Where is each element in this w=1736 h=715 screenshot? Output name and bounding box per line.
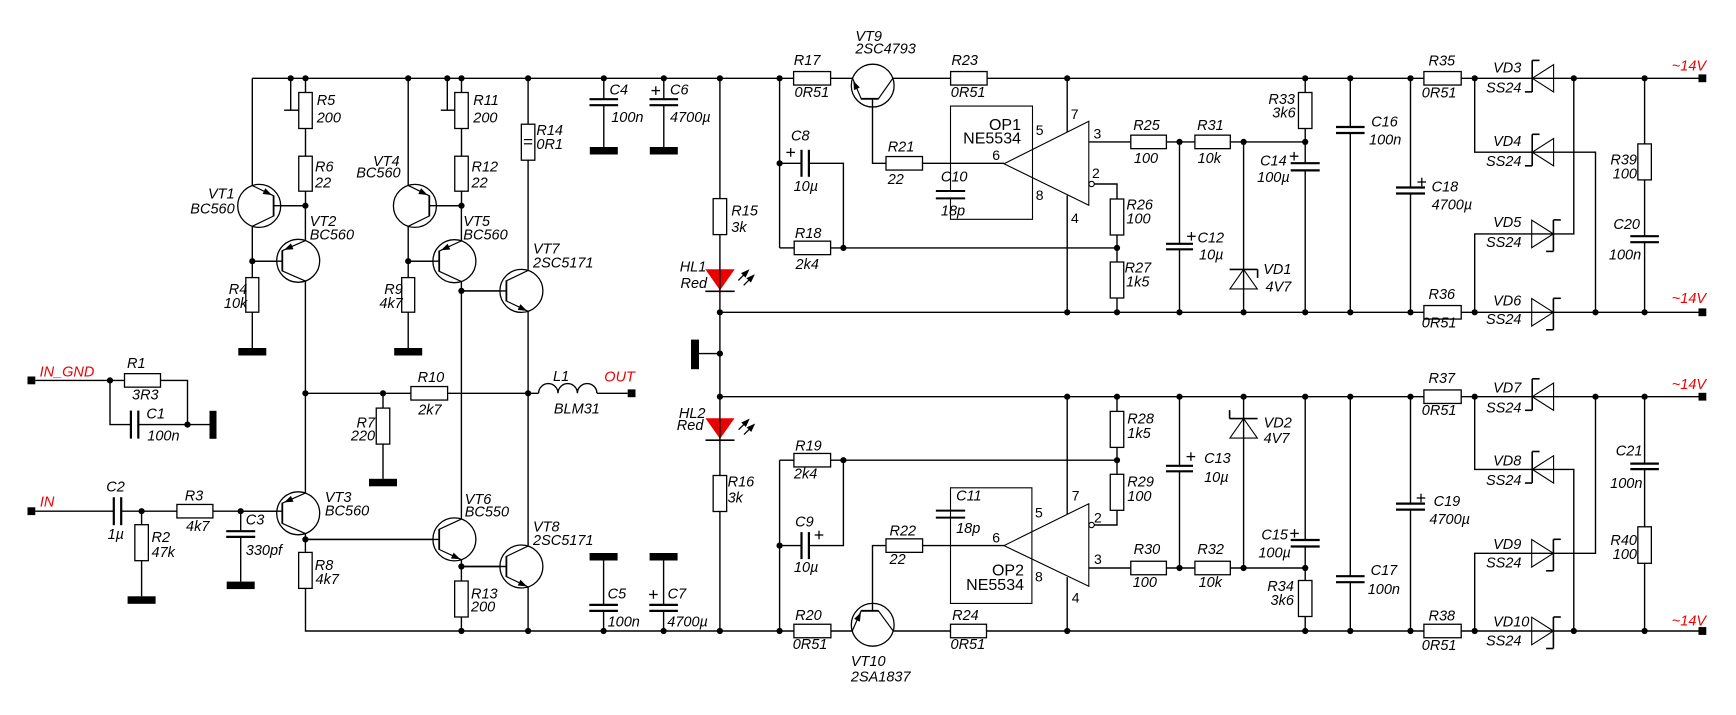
capacitor C4 xyxy=(590,83,644,127)
junction bottom rail x528 xyxy=(525,628,531,634)
svg-text:4700µ: 4700µ xyxy=(667,615,708,631)
junction top rail x780 xyxy=(777,75,783,81)
svg-text:100n: 100n xyxy=(1369,132,1401,148)
wire VT8 collector xyxy=(527,393,529,546)
capacitor C21 xyxy=(1610,444,1659,492)
wire VT6 base link xyxy=(306,538,440,540)
signal ground bar xyxy=(691,340,699,370)
junction node C9 left xyxy=(777,543,783,549)
svg-text:200: 200 xyxy=(472,111,497,127)
svg-text:6: 6 xyxy=(992,147,1000,163)
wire VT8 emitter to bottom rail xyxy=(527,587,529,631)
svg-text:10µ: 10µ xyxy=(1199,248,1223,264)
wire IN lead xyxy=(35,510,114,512)
wire C1 row xyxy=(110,380,188,424)
svg-text:R2: R2 xyxy=(152,530,171,546)
svg-text:R25: R25 xyxy=(1133,118,1161,134)
svg-text:BC560: BC560 xyxy=(190,202,234,218)
wire VD5 branch xyxy=(1475,78,1574,312)
resistor R7 xyxy=(350,408,390,444)
capacitor C12 xyxy=(1166,231,1224,264)
svg-text:R6: R6 xyxy=(315,159,334,175)
junction ch2 rail x1596 xyxy=(1592,394,1598,400)
junction node R1-C1 left xyxy=(107,377,113,383)
inductor L1 xyxy=(539,369,600,417)
resistor R5 xyxy=(299,93,341,129)
svg-text:8: 8 xyxy=(1036,187,1044,203)
svg-text:R19: R19 xyxy=(795,439,822,455)
svg-text:1k5: 1k5 xyxy=(1127,426,1151,442)
svg-text:SS24: SS24 xyxy=(1486,154,1521,170)
junction node VT3-VT6 base xyxy=(302,536,308,542)
svg-text:BC560: BC560 xyxy=(463,228,507,244)
capacitor C8 xyxy=(786,129,818,195)
svg-text:R16: R16 xyxy=(728,474,756,490)
svg-text:100: 100 xyxy=(1127,489,1151,505)
resistor R19 xyxy=(793,439,831,483)
transistor VT3 xyxy=(241,490,370,535)
svg-text:18p: 18p xyxy=(956,521,980,537)
resistor R2 xyxy=(135,525,176,562)
svg-text:NE5534: NE5534 xyxy=(966,577,1024,594)
resistor R9 xyxy=(379,278,414,313)
junction ch2 rail x1244 xyxy=(1241,394,1247,400)
wire C7 column xyxy=(663,561,665,632)
svg-text:R36: R36 xyxy=(1429,287,1457,303)
svg-text:~14V: ~14V xyxy=(1672,614,1708,630)
svg-text:R17: R17 xyxy=(794,53,822,69)
svg-text:SS24: SS24 xyxy=(1486,473,1521,489)
svg-text:C9: C9 xyxy=(795,514,814,530)
junction mid rail x1645 xyxy=(1642,309,1648,315)
transistor VT8 xyxy=(461,519,593,588)
svg-text:C11: C11 xyxy=(956,488,982,504)
junction node R19-C9 xyxy=(840,457,846,463)
junction node VT7-VT8 on OUT rail xyxy=(525,390,531,396)
wire mid rail channel-1 return xyxy=(720,311,1699,313)
junction top rail x720 xyxy=(717,75,723,81)
diode VD7 xyxy=(1486,379,1554,417)
svg-text:2k4: 2k4 xyxy=(795,257,819,273)
resistor R6 xyxy=(299,156,335,191)
resistor R34 xyxy=(1267,579,1312,616)
svg-text:R35: R35 xyxy=(1429,53,1457,69)
svg-text:10k: 10k xyxy=(1198,151,1222,167)
junction node VT6-VT8 base xyxy=(458,563,464,569)
OP2 pin labels xyxy=(992,487,1102,605)
svg-text:10µ: 10µ xyxy=(794,179,818,195)
junction ch2 rail x1410 xyxy=(1407,394,1413,400)
wire VT9 base lead xyxy=(873,107,887,163)
svg-text:C16: C16 xyxy=(1371,115,1399,131)
wire R34 column xyxy=(1304,568,1306,631)
wire OP1 pin7 xyxy=(1066,78,1068,132)
wire OP2 pin2 xyxy=(1094,510,1117,525)
junction ch2 rail x1117 xyxy=(1114,394,1120,400)
svg-text:0R51: 0R51 xyxy=(1422,86,1457,102)
junction node VT2 base xyxy=(249,258,255,264)
resistor R29 xyxy=(1110,474,1154,510)
resistor R26 xyxy=(1110,198,1154,235)
svg-text:100n: 100n xyxy=(1609,248,1641,264)
resistor R39 xyxy=(1610,144,1651,183)
wire C8 to R18 xyxy=(809,163,844,248)
svg-text:R31: R31 xyxy=(1197,118,1224,134)
wire bottom rail xyxy=(306,588,1699,631)
svg-text:3k: 3k xyxy=(728,491,744,507)
diode VD3 xyxy=(1486,60,1554,96)
junction mid rail x1410 xyxy=(1407,309,1413,315)
diode VD6 xyxy=(1486,294,1561,330)
junction node R12-VT4 base xyxy=(458,203,464,209)
junction mid rail x1117 xyxy=(1114,309,1120,315)
svg-text:4: 4 xyxy=(1072,590,1080,606)
wire VT2 collector xyxy=(304,206,306,241)
resistor R36 xyxy=(1422,287,1461,332)
svg-text:R24: R24 xyxy=(952,608,979,624)
resistor R27 xyxy=(1110,261,1152,298)
svg-text:4k7: 4k7 xyxy=(316,572,340,588)
wire C6 column xyxy=(663,78,665,147)
junction bottom rail x720 xyxy=(717,628,723,634)
zener VD1 xyxy=(1230,262,1293,296)
wire C12 column xyxy=(1179,142,1181,312)
wire VT2 base link xyxy=(252,260,282,262)
resistor R38 xyxy=(1422,608,1461,654)
svg-text:6: 6 xyxy=(992,530,1000,546)
svg-text:C19: C19 xyxy=(1434,494,1461,510)
svg-text:R15: R15 xyxy=(731,204,759,220)
resistor R14 xyxy=(521,123,563,160)
junction node VT5 base xyxy=(405,258,411,264)
resistor R15 xyxy=(713,199,759,236)
junction node C13 bottom xyxy=(1176,565,1182,571)
junction bottom rail x1067 xyxy=(1064,628,1070,634)
svg-text:VD6: VD6 xyxy=(1493,294,1522,310)
svg-text:220: 220 xyxy=(350,429,375,445)
junction top rail x1475 xyxy=(1472,75,1478,81)
capacitor C15 xyxy=(1258,528,1319,562)
wire R15 column xyxy=(719,78,721,269)
svg-text:C20: C20 xyxy=(1613,217,1640,233)
junction bottom rail x461 xyxy=(458,628,464,634)
svg-text:4V7: 4V7 xyxy=(1266,280,1293,296)
wire VT7 base link xyxy=(461,290,506,292)
junction top rail x408 xyxy=(405,75,411,81)
junction top rail x447 xyxy=(444,75,450,81)
svg-text:BC550: BC550 xyxy=(465,504,509,520)
transistor VT4 xyxy=(356,154,461,227)
wire IN_GND lead xyxy=(35,379,124,381)
capacitor C7 xyxy=(649,586,708,630)
op-amp U1 OP1 xyxy=(963,117,1094,205)
svg-text:SS24: SS24 xyxy=(1486,312,1521,328)
wire OP1 pin2 xyxy=(1094,184,1117,199)
OP1 pin labels xyxy=(992,106,1101,226)
resistor R8 xyxy=(299,552,340,588)
svg-text:BC560: BC560 xyxy=(310,228,354,244)
wire OP1 pin4 xyxy=(1066,196,1068,313)
svg-text:100n: 100n xyxy=(147,429,179,445)
svg-text:R23: R23 xyxy=(951,53,978,69)
svg-text:3R3: 3R3 xyxy=(132,388,159,404)
wire R28-R29 link xyxy=(1116,447,1118,474)
svg-text:10k: 10k xyxy=(1199,575,1223,591)
wire VT3 emitter to R8 xyxy=(304,534,306,553)
terminal IN_GND xyxy=(28,365,95,385)
svg-text:4700µ: 4700µ xyxy=(670,110,711,126)
junction ch2 rail x1645 xyxy=(1642,394,1648,400)
junction node R19-R28-R29 xyxy=(1114,457,1120,463)
transistor VT9 xyxy=(851,29,916,107)
wire VT5 emitter to VT6 collector xyxy=(460,281,462,519)
svg-text:SS24: SS24 xyxy=(1486,81,1521,97)
svg-text:VD4: VD4 xyxy=(1493,134,1521,150)
resistor R22 xyxy=(886,524,923,569)
wire R39 column xyxy=(1644,78,1646,312)
junction bottom rail x1305 xyxy=(1302,628,1308,634)
diode VD8 xyxy=(1486,452,1554,490)
junction mid rail x720 xyxy=(717,309,723,315)
junction top rail x1067 xyxy=(1064,75,1070,81)
svg-text:BC560: BC560 xyxy=(325,503,369,519)
svg-text:2: 2 xyxy=(1092,165,1100,181)
svg-text:0R51: 0R51 xyxy=(1422,403,1457,419)
wire C16 column xyxy=(1349,78,1351,312)
junction node R6-VT1 base xyxy=(302,203,308,209)
svg-text:C10: C10 xyxy=(941,170,968,186)
svg-text:100µ: 100µ xyxy=(1258,546,1291,562)
wire VT10 base lead xyxy=(873,546,887,604)
junction node VT5-VT7 base xyxy=(458,288,464,294)
terminal +14V top xyxy=(1672,59,1708,83)
wire C4 column xyxy=(603,78,605,147)
wire C9 left column xyxy=(779,460,781,631)
resistor R23 xyxy=(951,53,988,101)
svg-text:4700µ: 4700µ xyxy=(1432,198,1473,214)
ground above C7 xyxy=(650,553,678,561)
capacitor C13 xyxy=(1166,451,1231,486)
capacitor C17 xyxy=(1336,563,1400,598)
svg-text:22: 22 xyxy=(471,176,488,192)
junction bottom rail x1475 xyxy=(1472,628,1478,634)
wire R27 to mid rail xyxy=(1116,298,1118,312)
svg-text:C13: C13 xyxy=(1204,451,1231,467)
wire VT4 base link xyxy=(429,205,461,207)
svg-text:~14V: ~14V xyxy=(1672,291,1708,307)
capacitor C11 xyxy=(936,488,982,537)
svg-text:7: 7 xyxy=(1072,487,1080,503)
svg-text:C3: C3 xyxy=(246,513,265,529)
svg-text:100µ: 100µ xyxy=(1257,170,1290,186)
svg-text:0R51: 0R51 xyxy=(951,637,986,653)
junction node R18-R26-R27 xyxy=(1114,245,1120,251)
wire C8 left column xyxy=(779,78,781,248)
svg-text:VD8: VD8 xyxy=(1493,453,1521,469)
wire VT4 emitter to R9 xyxy=(407,226,409,277)
wire C3 branch xyxy=(240,511,242,581)
junction top rail x1305 xyxy=(1302,75,1308,81)
junction ch2 rail x1067 xyxy=(1064,394,1070,400)
capacitor C18 xyxy=(1396,178,1472,214)
wire VT1 base link xyxy=(274,205,306,207)
junction bottom rail x1645 xyxy=(1642,628,1648,634)
svg-text:R30: R30 xyxy=(1134,542,1161,558)
wire C18 column xyxy=(1410,78,1412,312)
svg-text:SS24: SS24 xyxy=(1486,400,1521,416)
LED HL2 xyxy=(677,406,755,440)
svg-text:R11: R11 xyxy=(473,93,499,109)
svg-text:VT10: VT10 xyxy=(851,654,886,670)
capacitor C14 xyxy=(1257,152,1320,186)
wire C21-R40 column xyxy=(1644,397,1646,631)
wire C9 row xyxy=(780,545,802,547)
wire R2 branch xyxy=(141,511,143,596)
svg-text:3k: 3k xyxy=(731,220,747,236)
wire C2 to R3 xyxy=(121,510,177,512)
diode VD9 xyxy=(1486,537,1561,571)
wire R33 column xyxy=(1304,78,1306,142)
resistor R30 xyxy=(1131,542,1167,591)
wire HL1 to mid rail xyxy=(719,291,721,312)
ground below R9 xyxy=(394,348,422,356)
svg-text:5: 5 xyxy=(1035,505,1043,521)
svg-text:C2: C2 xyxy=(106,479,125,495)
resistor R40 xyxy=(1610,527,1651,564)
wire R14 column xyxy=(527,78,529,270)
svg-text:4k7: 4k7 xyxy=(379,296,403,312)
junction mid rail x1180 xyxy=(1176,309,1182,315)
terminal OUT xyxy=(604,370,636,397)
terminal -14V bottom xyxy=(1672,614,1708,635)
svg-text:R32: R32 xyxy=(1197,542,1224,558)
wire R11 column xyxy=(461,78,463,205)
svg-text:4700µ: 4700µ xyxy=(1429,512,1470,528)
wire channel-2 supply rail xyxy=(720,396,1699,398)
svg-text:R1: R1 xyxy=(127,356,146,372)
svg-text:C6: C6 xyxy=(670,83,689,99)
junction bottom rail x780 xyxy=(777,628,783,634)
svg-text:2SC5171: 2SC5171 xyxy=(532,255,593,271)
resistor R4 xyxy=(224,278,259,313)
svg-text:100n: 100n xyxy=(611,110,643,126)
svg-text:SS24: SS24 xyxy=(1486,556,1521,572)
svg-text:C17: C17 xyxy=(1371,563,1399,579)
junction node C3 tap xyxy=(238,508,244,514)
svg-text:L1: L1 xyxy=(553,369,569,385)
svg-text:~14V: ~14V xyxy=(1672,59,1708,75)
junction node C8 left xyxy=(777,160,783,166)
capacitor C10 xyxy=(936,170,968,220)
svg-text:8: 8 xyxy=(1035,568,1043,584)
svg-text:10µ: 10µ xyxy=(794,560,818,576)
transistor VT1 xyxy=(190,184,305,227)
svg-text:100: 100 xyxy=(1613,547,1637,563)
capacitor C1 xyxy=(131,407,180,445)
wire VD1 column xyxy=(1243,142,1245,312)
wire R25-R31 row xyxy=(1166,141,1305,143)
svg-text:1µ: 1µ xyxy=(108,527,124,543)
junction ch2 rail x1475 xyxy=(1472,394,1478,400)
capacitor C3 xyxy=(226,513,284,560)
terminal -14V mid xyxy=(1672,291,1708,316)
LED HL1 xyxy=(680,259,755,292)
svg-text:C7: C7 xyxy=(668,586,687,602)
resistor R12 xyxy=(455,156,498,191)
wire mid ground stub xyxy=(699,353,720,355)
junction mid rail x1596 xyxy=(1592,309,1598,315)
wire C8 row xyxy=(780,162,802,164)
junction node C1-gnd xyxy=(184,422,190,428)
svg-text:VD1: VD1 xyxy=(1263,262,1291,278)
terminal IN xyxy=(28,495,55,516)
wire R3 to VT3 base xyxy=(213,510,284,512)
junction mid rail x1244 xyxy=(1241,309,1247,315)
resistor R18 xyxy=(794,226,830,273)
junction node VD1 top xyxy=(1241,139,1247,145)
wire R26-R27 link xyxy=(1116,235,1118,262)
junction bottom rail x1410 xyxy=(1407,628,1413,634)
wire VT5 base link xyxy=(408,260,439,262)
svg-text:100: 100 xyxy=(1613,166,1637,182)
wire VD2 column xyxy=(1243,397,1245,568)
svg-text:100: 100 xyxy=(1126,212,1150,228)
wire OP2 pin3 out xyxy=(1089,567,1131,569)
svg-text:R22: R22 xyxy=(890,524,917,540)
wire VT3 collector xyxy=(304,393,306,493)
svg-text:VD7: VD7 xyxy=(1493,381,1522,397)
svg-text:C21: C21 xyxy=(1616,444,1643,460)
wire R9 to ground xyxy=(407,312,409,348)
svg-text:VD5: VD5 xyxy=(1493,215,1522,231)
svg-text:100: 100 xyxy=(1134,151,1158,167)
resistor R10 xyxy=(411,370,448,419)
junction ch2 rail x1180 xyxy=(1176,394,1182,400)
resistor R17 xyxy=(794,53,831,101)
transistor VT10 xyxy=(850,603,912,686)
svg-text:BC560: BC560 xyxy=(356,166,400,182)
svg-text:NE5534: NE5534 xyxy=(963,131,1021,148)
resistor R3 xyxy=(177,489,213,536)
junction mid rail x1067 xyxy=(1064,309,1070,315)
wire VT5 collector xyxy=(460,206,462,241)
junction node R18-C8 xyxy=(840,245,846,251)
wire top supply rail xyxy=(252,77,1698,79)
svg-text:C14: C14 xyxy=(1260,154,1287,170)
svg-text:C15: C15 xyxy=(1261,528,1289,544)
junction bottom rail x1574 xyxy=(1571,628,1577,634)
resistor R33 xyxy=(1268,92,1312,129)
resistor R13 xyxy=(455,581,498,617)
svg-text:C18: C18 xyxy=(1432,180,1459,196)
svg-text:7: 7 xyxy=(1071,106,1079,122)
ground below C4 xyxy=(590,147,618,155)
svg-text:1k5: 1k5 xyxy=(1126,274,1150,290)
svg-text:22: 22 xyxy=(887,172,904,188)
wire VD9 branch xyxy=(1475,397,1596,631)
junction bottom rail x1350 xyxy=(1347,628,1353,634)
resistor R1 xyxy=(125,356,161,404)
resistor R24 xyxy=(951,608,987,653)
junction node mid ground xyxy=(717,351,723,357)
svg-text:Red: Red xyxy=(681,276,709,292)
resistor R31 xyxy=(1195,118,1230,167)
svg-text:OUT: OUT xyxy=(604,370,636,386)
svg-text:100: 100 xyxy=(1133,575,1157,591)
svg-text:R3: R3 xyxy=(185,489,204,505)
wire VT1 collector column xyxy=(251,78,253,185)
svg-text:VT1: VT1 xyxy=(208,186,235,202)
